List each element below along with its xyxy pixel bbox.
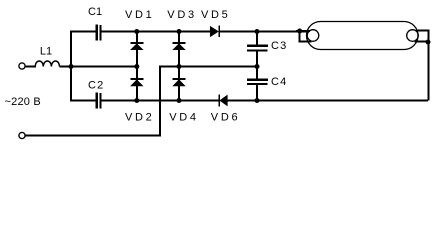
node dot C3 C4 mid: [255, 64, 260, 69]
wire left vertical through node A: [70, 32, 72, 101]
node dot C3 top: [255, 29, 260, 34]
node dot VD4 bottom: [177, 98, 182, 103]
inductor L1: [35, 61, 59, 67]
terminal input bottom: [19, 132, 25, 138]
wire bottom rail right: [227, 100, 428, 102]
svg-text:VD2: VD2: [125, 112, 155, 124]
node A junction dot: [69, 64, 74, 69]
wire lamp left lower pin: [300, 32, 312, 42]
wire riser vertical: [159, 67, 161, 136]
diode VD5: [210, 26, 218, 37]
svg-text:~220 В: ~220 В: [5, 96, 41, 108]
wire top rail left: [70, 31, 96, 33]
node dot VD1 top: [134, 29, 139, 34]
node dot lamp right pin: [426, 40, 431, 45]
diode VD3: [178, 32, 180, 67]
node dot VD3 VD4 mid: [177, 64, 182, 69]
diode VD1: [136, 32, 138, 67]
svg-text:C3: C3: [271, 40, 287, 52]
terminal input top: [19, 63, 25, 69]
diode VD4: [178, 67, 180, 101]
wire top rail right: [220, 31, 309, 33]
svg-text:VD6: VD6: [211, 112, 241, 124]
node dot VD3 top: [177, 29, 182, 34]
lamp filament right: [407, 30, 419, 42]
wire top rail middle: [102, 31, 211, 33]
svg-text:C2: C2: [88, 80, 104, 92]
svg-text:VD3: VD3: [167, 9, 197, 21]
node dot VD1 VD2 mid: [134, 64, 139, 69]
node dot C4 bottom: [255, 98, 260, 103]
svg-text:L1: L1: [40, 46, 52, 58]
wire terminal to L1: [25, 66, 36, 68]
wire bottom rail left: [70, 100, 96, 102]
svg-text:VD1: VD1: [125, 9, 155, 21]
diode VD2: [136, 67, 138, 101]
capacitor C1: [96, 25, 98, 41]
svg-text:C4: C4: [271, 76, 287, 88]
capacitor C4: [256, 67, 258, 79]
wire L1 to node A: [59, 66, 137, 68]
wire bottom input: [25, 135, 161, 137]
svg-text:VD5: VD5: [201, 9, 231, 21]
capacitor C3: [256, 32, 258, 46]
lamp filament left: [307, 30, 319, 42]
wire mid rail right: [159, 66, 257, 68]
wire lamp right lower pin: [415, 41, 430, 43]
wire bottom rail middle: [102, 100, 219, 102]
diode VD6: [218, 95, 220, 107]
svg-text:VD4: VD4: [169, 112, 199, 124]
svg-text:C1: C1: [88, 6, 102, 18]
wire lamp right top pin: [416, 31, 429, 101]
wire lamp left top pin: [296, 30, 310, 32]
node dot lamp left pin: [297, 29, 302, 34]
capacitor C2: [96, 93, 98, 109]
node dot VD2 bottom: [134, 98, 139, 103]
lamp tube EL: [307, 22, 419, 50]
